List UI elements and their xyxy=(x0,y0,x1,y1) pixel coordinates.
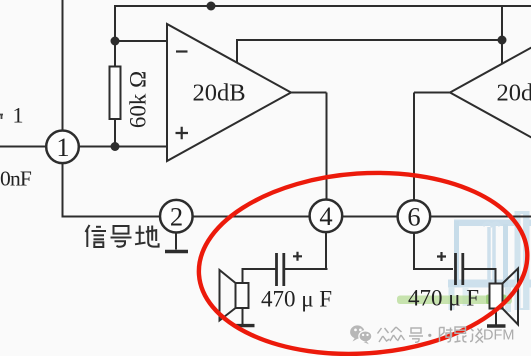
wire: rail down to resistor top xyxy=(114,5,116,67)
node 2 xyxy=(160,200,193,233)
junction on top rail xyxy=(207,2,216,11)
speaker LS1 xyxy=(236,283,249,308)
wire: amp 2 input xyxy=(414,92,451,94)
op-amp signs xyxy=(176,52,447,262)
wire: feedback rail to amp 2 xyxy=(236,39,502,41)
wire: left input horizontal into node 1 xyxy=(0,146,47,148)
U1 minus sign xyxy=(176,50,188,52)
char kun xyxy=(455,327,466,333)
wire: capacitor C2 left lead xyxy=(413,268,453,270)
wire: capacitor C1 right lead xyxy=(285,268,327,269)
red highlight ellipse xyxy=(193,162,531,356)
char di xyxy=(139,226,141,245)
node 1 xyxy=(46,131,79,164)
node circles xyxy=(46,131,430,233)
wire: input vertical from top to node 1 xyxy=(62,0,64,131)
wire: capacitor C2 right lead to speaker xyxy=(464,269,496,284)
wire: node 1 down xyxy=(62,163,64,217)
wire: amp 1 output down to node 4 xyxy=(326,93,328,201)
wire: amp 2 input down to node 6 xyxy=(413,93,415,201)
wire: to node 2 xyxy=(62,216,161,218)
book watermark (light blue) xyxy=(448,211,531,312)
svg-text:6: 6 xyxy=(407,202,420,232)
wire: top supply rail xyxy=(115,5,531,7)
node 6 xyxy=(398,200,431,233)
svg-text:DFM: DFM xyxy=(483,328,514,344)
svg-text:1: 1 xyxy=(13,103,24,128)
char hao xyxy=(114,226,129,234)
svg-text:470 μ F: 470 μ F xyxy=(261,287,332,312)
wire: node 2 to node 4 xyxy=(193,216,310,218)
svg-text:20dB: 20dB xyxy=(496,80,531,107)
junction at resistor bottom xyxy=(111,142,120,151)
green stripe watermark xyxy=(397,296,512,305)
char tan xyxy=(470,329,474,342)
node 4 xyxy=(310,200,343,233)
C2 plus sign xyxy=(437,252,446,261)
U1 plus sign xyxy=(176,127,189,140)
ground under LS1 xyxy=(242,308,244,325)
wire: to op-amp inverting input xyxy=(115,40,167,42)
wire: top rail down to amp 2 xyxy=(501,5,503,64)
cropped character tick at left edge xyxy=(0,115,3,120)
wire: node 4 down xyxy=(325,233,327,270)
wire: amp 1 output xyxy=(291,92,327,94)
separator dot xyxy=(428,334,431,337)
label: xin hao di (signal ground) xyxy=(86,225,159,247)
char xin xyxy=(86,225,90,232)
capacitor C1 plates xyxy=(275,253,278,286)
char gong xyxy=(378,328,382,334)
svg-text:470 μ F: 470 μ F xyxy=(408,286,479,311)
wire: node 1 to op-amp + input xyxy=(79,146,168,148)
op-amp U1 xyxy=(167,24,291,161)
speaker LS2 (mirrored) xyxy=(490,284,503,309)
wire: resistor bottom to + input wire xyxy=(114,119,116,147)
svg-text:0nF: 0nF xyxy=(0,167,32,191)
svg-text:60k Ω: 60k Ω xyxy=(126,71,151,128)
wechat watermark text xyxy=(378,327,484,343)
svg-text:2: 2 xyxy=(170,202,183,232)
svg-text:4: 4 xyxy=(319,201,332,231)
C1 plus sign xyxy=(293,252,302,261)
wire: feedback tap on amp 1 xyxy=(236,40,238,62)
ground under LS2 xyxy=(495,309,497,325)
svg-text:1: 1 xyxy=(56,132,69,162)
op-amp U2 (mirrored, cropped) xyxy=(450,24,531,161)
ground under node 2 xyxy=(175,233,177,250)
char hao2 xyxy=(411,328,421,333)
char a xyxy=(440,328,445,343)
wire: node 4 to node 6 xyxy=(343,216,399,218)
junction at resistor top xyxy=(111,37,120,46)
wire: node 6 to right edge xyxy=(431,216,531,218)
resistor R (60k) body xyxy=(110,67,121,120)
svg-text:20dB: 20dB xyxy=(192,80,245,107)
char zhong xyxy=(391,327,402,333)
wire: node 6 down xyxy=(413,233,415,270)
capacitor C2 plates xyxy=(454,253,457,285)
wechat watermark icon xyxy=(350,325,372,344)
junction on feedback rail xyxy=(498,36,507,45)
wire: capacitor C1 left lead to speaker xyxy=(243,269,276,284)
